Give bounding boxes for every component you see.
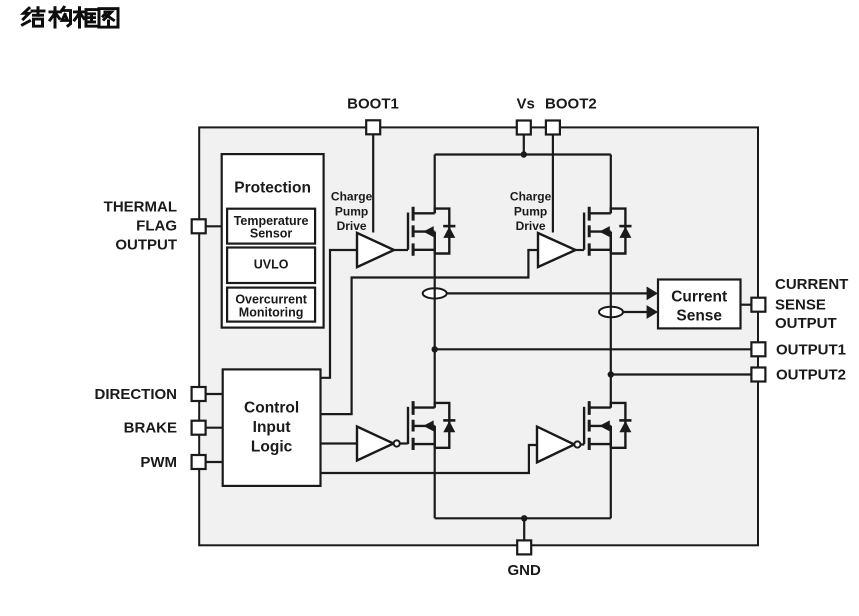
junction dot OUTPUT2 bbox=[608, 371, 614, 377]
svg-text:Charge: Charge bbox=[510, 190, 552, 204]
label Current Sense bbox=[671, 289, 727, 325]
svg-text:Protection: Protection bbox=[234, 179, 311, 196]
wire charge pump 1 output to gate bbox=[394, 249, 408, 251]
block Current Sense bbox=[658, 280, 741, 329]
arrowhead into current sense (bottom) bbox=[647, 305, 658, 319]
block Temperature Sensor bbox=[227, 209, 315, 244]
svg-text:Vs: Vs bbox=[517, 96, 535, 113]
svg-text:THERMAL: THERMAL bbox=[104, 199, 177, 216]
wire PWM pin bbox=[206, 461, 223, 463]
svg-text:OUTPUT: OUTPUT bbox=[775, 315, 837, 332]
svg-text:FLAG: FLAG bbox=[136, 217, 177, 234]
svg-text:BRAKE: BRAKE bbox=[124, 420, 177, 437]
block UVLO bbox=[227, 248, 315, 284]
wire left drain column bbox=[434, 155, 436, 214]
label THERMAL FLAG OUTPUT bbox=[104, 199, 177, 254]
wire control logic to inverter 1 input bbox=[321, 442, 358, 444]
svg-text:Logic: Logic bbox=[251, 438, 293, 455]
pin BOOT1 bbox=[366, 120, 380, 134]
pin Vs bbox=[517, 121, 531, 135]
svg-text:CURRENT: CURRENT bbox=[775, 276, 848, 293]
svg-text:Monitoring: Monitoring bbox=[239, 305, 304, 319]
label charge pump drive 1 bbox=[331, 190, 373, 233]
wire control logic to inverter 2 input bbox=[321, 445, 538, 473]
block Control Input Logic bbox=[223, 369, 321, 486]
svg-text:OUTPUT2: OUTPUT2 bbox=[776, 367, 846, 384]
arrowhead into current sense (top) bbox=[647, 287, 658, 301]
title 结构框图 (hand-drawn strokes) bbox=[23, 7, 119, 27]
label Overcurrent Monitoring bbox=[235, 293, 307, 320]
wire right mid column (OUTPUT2 node) bbox=[610, 232, 612, 408]
svg-text:Current: Current bbox=[671, 289, 727, 306]
wire DIRECTION pin bbox=[206, 393, 223, 395]
wire control logic to charge pump 1 input bbox=[322, 250, 358, 378]
svg-text:BOOT2: BOOT2 bbox=[545, 96, 597, 113]
pin PWM bbox=[192, 455, 206, 469]
pin GND bbox=[517, 540, 531, 554]
current sense loop ellipse 1 (left half-bridge) bbox=[423, 288, 447, 298]
svg-text:BOOT1: BOOT1 bbox=[347, 96, 399, 113]
svg-text:GND: GND bbox=[508, 562, 542, 579]
pin THERMAL FLAG OUTPUT bbox=[192, 219, 206, 233]
wire BOOT2 drop bbox=[552, 135, 554, 233]
wire right drain column bbox=[610, 155, 612, 214]
pin BOOT2 bbox=[546, 121, 560, 135]
svg-text:Sense: Sense bbox=[676, 307, 722, 324]
char 构 bbox=[50, 7, 71, 27]
wire OUTPUT1 bbox=[435, 348, 752, 350]
block Overcurrent Monitoring bbox=[227, 288, 315, 322]
wire ground bottom rail bbox=[435, 517, 611, 519]
svg-text:UVLO: UVLO bbox=[254, 257, 289, 271]
wire GND pin riser bbox=[523, 518, 525, 541]
wire thermal flag to protection bbox=[206, 225, 222, 227]
block Protection bbox=[222, 154, 324, 328]
pin CURRENT SENSE OUTPUT bbox=[751, 298, 765, 312]
wire charge pump 2 output to gate bbox=[576, 249, 585, 251]
buffer charge pump drive 1 bbox=[357, 233, 394, 267]
svg-text:OUTPUT1: OUTPUT1 bbox=[776, 341, 846, 358]
wire inverter 1 output to gate bbox=[400, 442, 408, 444]
svg-text:Drive: Drive bbox=[337, 219, 367, 233]
label charge pump drive 2 bbox=[510, 190, 552, 233]
nmos Q3 low-side left bbox=[408, 401, 455, 450]
wire BOOT1 drop bbox=[372, 134, 374, 232]
svg-text:Sensor: Sensor bbox=[250, 227, 293, 241]
label Temperature Sensor bbox=[234, 214, 309, 241]
wire Vs pin drop bbox=[523, 135, 525, 155]
char 结 bbox=[23, 8, 45, 27]
label Control Input Logic bbox=[244, 399, 299, 455]
outer IC boundary box bbox=[199, 127, 758, 545]
svg-text:Pump: Pump bbox=[514, 204, 547, 218]
wire inverter 2 output to gate bbox=[581, 443, 585, 445]
char 图 bbox=[99, 9, 118, 28]
wire Vs top rail bbox=[435, 153, 611, 155]
wire left source column bbox=[434, 426, 436, 519]
svg-text:Pump: Pump bbox=[335, 204, 368, 218]
label CURRENT SENSE OUTPUT bbox=[775, 276, 848, 332]
junction dot Vs rail bbox=[521, 151, 527, 157]
svg-text:Charge: Charge bbox=[331, 190, 373, 204]
svg-text:PWM: PWM bbox=[140, 454, 177, 471]
svg-text:SENSE: SENSE bbox=[775, 297, 826, 314]
char 框 bbox=[75, 8, 97, 27]
inverter 2 (low side right) bbox=[537, 427, 581, 463]
wire OUTPUT2 bbox=[611, 373, 752, 375]
nmos Q1 high-side left bbox=[408, 207, 455, 256]
svg-text:Drive: Drive bbox=[516, 219, 546, 233]
wire sense 1 to current sense block bbox=[447, 292, 648, 294]
inverter 1 (low side left) bbox=[357, 427, 400, 461]
junction dot OUTPUT1 bbox=[432, 346, 438, 352]
current sense loop ellipse 2 (right half-bridge) bbox=[599, 307, 623, 317]
nmos Q4 low-side right bbox=[584, 401, 631, 450]
nmos Q2 high-side right bbox=[584, 207, 631, 256]
wire control logic to charge pump 2 input bbox=[322, 250, 539, 414]
buffer charge pump drive 2 bbox=[538, 233, 576, 267]
svg-text:DIRECTION: DIRECTION bbox=[95, 386, 178, 403]
svg-text:Input: Input bbox=[253, 419, 291, 436]
wire current sense to pin bbox=[741, 304, 752, 306]
wire right source column bbox=[610, 426, 612, 519]
pin DIRECTION bbox=[192, 387, 206, 401]
pin OUTPUT1 bbox=[751, 342, 765, 356]
svg-text:OUTPUT: OUTPUT bbox=[115, 236, 177, 253]
pin OUTPUT2 bbox=[751, 368, 765, 382]
wire left mid column (OUTPUT1 node) bbox=[434, 232, 436, 408]
wire BRAKE pin bbox=[206, 427, 223, 429]
pin BRAKE bbox=[192, 421, 206, 435]
wire sense 2 to current sense block bbox=[623, 311, 648, 313]
junction dot GND rail bbox=[521, 515, 527, 521]
svg-text:Control: Control bbox=[244, 399, 299, 416]
